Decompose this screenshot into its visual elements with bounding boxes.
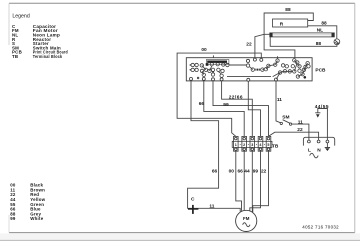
wire 11 PCB to SM — [276, 81, 281, 124]
reactor R — [273, 19, 308, 27]
svg-text:11: 11 — [298, 119, 303, 125]
wire 22/66 to TB3 — [222, 81, 253, 137]
PCB solder square — [206, 63, 209, 66]
svg-text:22: 22 — [246, 42, 252, 48]
PCB pad arrows — [189, 64, 191, 71]
wire 88 bottom (starter return) — [270, 37, 337, 46]
PCB pads right section — [246, 56, 310, 81]
svg-text:5: 5 — [267, 143, 269, 147]
svg-text:R: R — [280, 21, 284, 27]
svg-text:N: N — [317, 147, 321, 153]
terminal earth — [326, 137, 329, 143]
svg-text:11: 11 — [209, 204, 214, 210]
bottom scan strip — [0, 233, 360, 241]
capacitor C — [188, 205, 198, 214]
svg-text:NL: NL — [317, 27, 323, 33]
svg-text:TB: TB — [272, 143, 279, 149]
svg-text:11: 11 — [277, 97, 282, 103]
neon lamp NL — [270, 33, 335, 37]
svg-text:22: 22 — [297, 127, 303, 133]
terminal block TB — [232, 136, 272, 151]
svg-text:L: L — [308, 147, 311, 153]
wire 22 (lamp to PCB) — [255, 34, 270, 57]
starter S — [334, 39, 340, 45]
svg-text:22/66: 22/66 — [229, 95, 243, 101]
svg-text:2: 2 — [243, 143, 245, 147]
PCB pads top edge — [253, 58, 262, 61]
wire colour legend — [10, 183, 45, 222]
svg-text:99: 99 — [253, 168, 259, 174]
PCB pads left section — [190, 62, 230, 80]
wire 00 (PCB around left to TB1) — [177, 53, 261, 136]
svg-text:4052 716 70032: 4052 716 70032 — [302, 225, 339, 230]
svg-text:Terminal Block: Terminal Block — [33, 54, 63, 59]
wire 99 TB4 to motor — [250, 151, 261, 212]
svg-text:PCB: PCB — [315, 67, 326, 73]
PCB triangle component — [212, 71, 214, 73]
mains wave symbol — [310, 153, 319, 158]
PCB top stub — [212, 55, 214, 57]
svg-text:22: 22 — [261, 168, 267, 174]
wire 44 to TB4 — [248, 81, 260, 136]
wire to PCB right top — [264, 34, 295, 58]
svg-text:00: 00 — [229, 168, 235, 174]
wire 22 N to TB5 — [269, 132, 319, 137]
wire 44 TB3 to motor — [251, 151, 253, 213]
earth symbol under box — [325, 143, 330, 148]
wire 22 TB5 to motor — [253, 151, 269, 213]
wire 99 to TB5 — [213, 81, 269, 137]
PCB component bar — [206, 60, 229, 65]
wire 00 TB1 to motor — [236, 151, 242, 211]
svg-text:88: 88 — [321, 21, 327, 27]
svg-text:66: 66 — [238, 168, 244, 174]
PCB left traces — [202, 65, 271, 77]
wire 66 TB2 to motor — [243, 151, 245, 213]
PCB filled via — [304, 76, 307, 79]
wire 11 SM to L — [292, 124, 309, 137]
ground symbol 44/55 — [315, 113, 320, 118]
wire 66 to TB2 — [204, 81, 244, 137]
svg-text:66: 66 — [212, 168, 218, 174]
terminal L — [308, 137, 311, 143]
svg-text:44/55: 44/55 — [315, 104, 329, 110]
svg-text:99: 99 — [223, 102, 229, 108]
svg-text:TB: TB — [12, 54, 18, 59]
svg-text:99: 99 — [10, 216, 16, 221]
border frame — [9, 2, 355, 4]
svg-text:88: 88 — [285, 7, 291, 13]
svg-text:1: 1 — [235, 143, 237, 147]
wire 66 (PCB to capacitor) — [188, 81, 241, 212]
svg-text:C: C — [191, 197, 195, 203]
PCB coil component — [255, 69, 261, 71]
switch SM — [280, 120, 292, 126]
terminal N — [317, 137, 320, 143]
legend abbreviations — [12, 24, 68, 59]
svg-text:FM: FM — [243, 216, 250, 221]
mains terminal box — [303, 137, 334, 145]
svg-text:44: 44 — [244, 168, 250, 174]
PCB board outline — [186, 58, 312, 81]
svg-text:00: 00 — [201, 47, 207, 53]
PCB right traces — [250, 60, 308, 79]
svg-text:3: 3 — [251, 143, 253, 147]
fan motor FM — [236, 210, 257, 231]
earth wire 44/55 — [318, 109, 328, 138]
svg-text:White: White — [30, 216, 44, 221]
wire 88 top — [264, 13, 313, 34]
svg-text:Legend: Legend — [12, 13, 29, 19]
svg-text:88: 88 — [316, 41, 322, 47]
wire 88 right — [308, 26, 337, 39]
svg-text:SM: SM — [282, 115, 289, 121]
